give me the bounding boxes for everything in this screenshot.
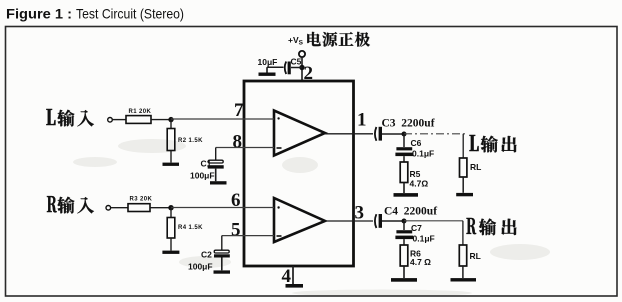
svg-text:100μF: 100μF bbox=[190, 171, 215, 181]
svg-text:R5: R5 bbox=[410, 169, 421, 179]
ground for RL (L) bbox=[456, 193, 473, 196]
node D junction R out bbox=[402, 219, 407, 224]
svg-text:C5: C5 bbox=[291, 57, 302, 67]
wire C4 to node D bbox=[382, 220, 404, 222]
wire node A to pin 7 bbox=[171, 118, 274, 120]
resistor RL (R load) bbox=[459, 245, 466, 278]
resistor R3 20K bbox=[128, 204, 150, 212]
wire node C to RL corner bbox=[404, 133, 465, 135]
svg-text:100μF: 100μF bbox=[188, 262, 213, 272]
svg-text:RL: RL bbox=[470, 162, 481, 172]
resistor R5 4.7ohm bbox=[400, 162, 408, 193]
svg-text:RL: RL bbox=[470, 251, 481, 261]
wire pin 3 to C4 bbox=[325, 220, 373, 222]
svg-text:C1: C1 bbox=[201, 159, 212, 169]
IC U1 package outline bbox=[244, 81, 354, 266]
svg-text:C3 2200uf: C3 2200uf bbox=[382, 118, 435, 130]
label R输出 (R output) bbox=[466, 218, 516, 235]
svg-text:C4 2200uf: C4 2200uf bbox=[384, 206, 437, 218]
node A junction L bbox=[168, 117, 173, 122]
wire R1 to node A bbox=[151, 119, 171, 121]
label L输入 (L input) bbox=[46, 109, 94, 126]
node L input terminal bbox=[108, 118, 113, 123]
wire pin 8 to C1 bbox=[216, 148, 274, 161]
capacitor C2 100uF bbox=[214, 250, 230, 270]
resistor RL (L load) bbox=[460, 158, 467, 193]
label 电源正极 (supply positive) bbox=[307, 32, 370, 47]
resistor R2 1.5K bbox=[167, 120, 175, 163]
svg-text:1: 1 bbox=[357, 110, 367, 131]
svg-text:7: 7 bbox=[234, 100, 244, 121]
capacitor C5 10uF bypass bbox=[267, 62, 291, 75]
node C junction L out bbox=[402, 132, 407, 137]
svg-text:C6: C6 bbox=[411, 138, 422, 148]
ground for R6 bbox=[391, 278, 417, 282]
svg-text:4.7Ω: 4.7Ω bbox=[410, 179, 429, 189]
ground for C2 bbox=[214, 270, 231, 273]
svg-text:R3 20K: R3 20K bbox=[130, 197, 153, 203]
svg-text:R2 1.5K: R2 1.5K bbox=[178, 138, 203, 144]
wire pin 4 to ground bbox=[292, 266, 294, 284]
svg-text:Test Circuit (Stereo): Test Circuit (Stereo) bbox=[76, 7, 184, 22]
ground for R5 bbox=[394, 193, 419, 197]
wire R terminal to R3 bbox=[111, 207, 128, 209]
capacitor C4 2200uf bbox=[375, 214, 382, 228]
wire node B to pin 6 bbox=[171, 207, 274, 209]
svg-text:8: 8 bbox=[233, 132, 243, 153]
resistor R4 1.5K bbox=[167, 208, 175, 251]
wire R3 to node B bbox=[150, 207, 171, 209]
wire pin 5 to C2 bbox=[222, 236, 274, 250]
ground for RL (R) bbox=[451, 278, 477, 281]
svg-text:4: 4 bbox=[282, 266, 292, 287]
op-amp U1B bbox=[274, 198, 325, 242]
ground for C5 bbox=[259, 67, 276, 76]
capacitor C1 100uF bbox=[208, 160, 224, 181]
wire corner down to RL (R) bbox=[462, 221, 464, 245]
wire node D to RL corner (R) bbox=[404, 220, 463, 222]
label R输入 (R input) bbox=[47, 196, 94, 213]
wire junction to C5 bbox=[291, 67, 302, 69]
svg-text:R4 1.5K: R4 1.5K bbox=[178, 225, 203, 231]
svg-text:10μF: 10μF bbox=[258, 57, 278, 67]
ground for C1 bbox=[210, 181, 227, 184]
wire Vs terminal to pin 2 bbox=[301, 57, 303, 81]
wire C3 to node C bbox=[382, 133, 404, 135]
svg-text:Figure 1 :: Figure 1 : bbox=[6, 6, 72, 22]
svg-text:4.7 Ω: 4.7 Ω bbox=[410, 257, 431, 267]
capacitor C6 0.1uF bbox=[395, 134, 413, 162]
svg-text:C2: C2 bbox=[201, 250, 212, 260]
svg-text:5: 5 bbox=[231, 220, 241, 241]
svg-text:0.1μF: 0.1μF bbox=[413, 234, 435, 244]
capacitor C7 0.1uF bbox=[395, 221, 413, 245]
node R input terminal bbox=[106, 206, 111, 211]
ground for R4 bbox=[162, 251, 179, 254]
node +Vs supply terminal bbox=[299, 51, 305, 57]
node junction Vs/C5 bbox=[299, 65, 304, 70]
svg-text:0.1μF: 0.1μF bbox=[412, 149, 434, 159]
svg-text:R1 20K: R1 20K bbox=[129, 109, 152, 115]
ground for pin 4 bbox=[286, 284, 304, 288]
svg-text:C7: C7 bbox=[411, 223, 422, 233]
wire corner down to RL (L) bbox=[462, 134, 464, 158]
wire pin 1 to C3 bbox=[325, 133, 373, 135]
capacitor C3 2200uf bbox=[375, 127, 382, 141]
resistor R6 4.7ohm bbox=[400, 245, 408, 278]
node B junction R bbox=[168, 205, 173, 210]
label L输出 (L output) bbox=[469, 135, 516, 152]
resistor R1 20K bbox=[126, 116, 151, 124]
wire L terminal to R1 bbox=[113, 119, 126, 121]
ground for R2 bbox=[163, 163, 180, 166]
op-amp U1A bbox=[274, 111, 325, 156]
